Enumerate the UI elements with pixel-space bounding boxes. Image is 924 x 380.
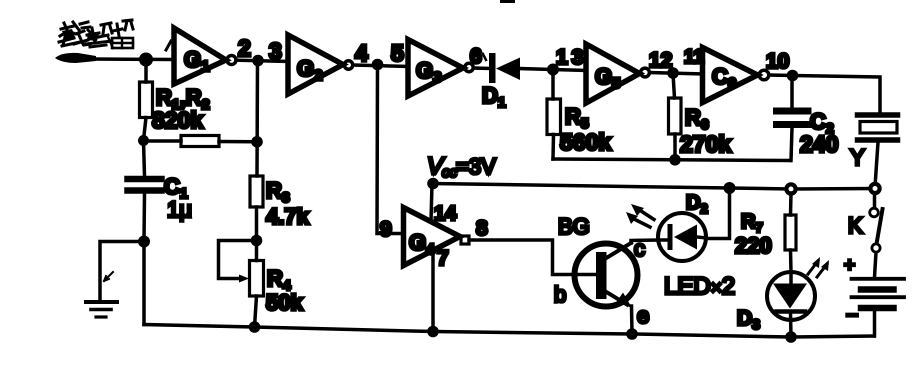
LED D2	[658, 213, 706, 261]
inverter G3	[408, 40, 463, 97]
inverter G6 (C6)	[703, 48, 758, 103]
wire node13 down to R5	[551, 70, 555, 99]
node R1 bottom	[138, 135, 149, 146]
wire Vcc down to G4 pin14	[431, 184, 432, 221]
bottom rail	[144, 325, 874, 338]
ground	[86, 300, 117, 304]
wire D1 to G5	[519, 69, 586, 71]
wire C1 node down to bottom rail	[142, 242, 146, 325]
svg-text:560k: 560k	[560, 129, 611, 155]
svg-text:b: b	[554, 282, 566, 307]
switch K	[873, 193, 877, 208]
capacitor C2	[777, 108, 809, 115]
wire node12 down to R6	[673, 74, 675, 99]
node R6 bottom on feedback wire	[669, 154, 681, 166]
wire G5 out to G6	[650, 73, 703, 75]
touch probe electrode	[55, 53, 96, 63]
pin 1 tick	[166, 41, 171, 50]
svg-text:3: 3	[269, 38, 282, 64]
node R4 bottom on rail	[249, 321, 261, 333]
svg-text:c: c	[634, 236, 645, 261]
svg-text:4: 4	[355, 40, 368, 66]
svg-text:−: −	[846, 304, 858, 327]
svg-text:12: 12	[649, 49, 672, 72]
wire node to R7	[789, 193, 793, 215]
Vcc rail	[433, 184, 875, 190]
resistor R1	[140, 82, 153, 118]
svg-text:13: 13	[556, 46, 587, 69]
transistor BG	[575, 244, 638, 307]
svg-text:7: 7	[437, 247, 449, 270]
svg-text:50k: 50k	[266, 290, 303, 315]
svg-text:2: 2	[238, 35, 251, 61]
node C1 bottom	[138, 236, 150, 248]
wire R2 to node under pin2	[219, 140, 257, 144]
wire G6 out to top right corner	[769, 75, 880, 113]
resistor R2 (horizontal)	[181, 136, 219, 147]
D3 light arrows	[808, 261, 827, 277]
svg-text:270k: 270k	[680, 131, 731, 157]
node D2 top on Vcc rail	[724, 182, 736, 194]
svg-text:1μ: 1μ	[167, 197, 192, 222]
svg-text:240: 240	[800, 131, 838, 157]
svg-text:14: 14	[434, 203, 457, 225]
capacitor C1	[128, 176, 162, 183]
inverter G4	[404, 208, 461, 266]
node 13	[547, 64, 559, 76]
node Vcc	[427, 178, 439, 190]
svg-text:10: 10	[766, 50, 789, 73]
svg-text:K: K	[848, 213, 863, 238]
resistor R5	[547, 99, 561, 135]
node 10	[787, 70, 799, 82]
svg-text:=3V: =3V	[456, 154, 496, 179]
LED D3	[767, 272, 815, 320]
node under pin 2	[251, 136, 263, 148]
resistor R6	[669, 98, 682, 134]
crystal Y	[858, 112, 898, 118]
inverter G1	[174, 28, 226, 84]
touch plate label (smudged text)	[59, 20, 133, 48]
wire node to C1	[144, 141, 145, 176]
svg-text:6: 6	[470, 45, 482, 68]
pot wiper loop wire	[219, 241, 257, 279]
node 12	[667, 67, 679, 79]
resistor R3	[250, 176, 263, 207]
node pin7 on rail	[427, 326, 439, 338]
node Y/K on Vcc rail (ring)	[870, 184, 879, 193]
node D3 bottom on rail	[785, 331, 797, 343]
svg-text:5: 5	[391, 40, 404, 66]
svg-text:220: 220	[735, 233, 772, 258]
svg-text:9: 9	[380, 218, 392, 241]
inverter G5	[586, 44, 640, 103]
resistor R7	[785, 215, 796, 250]
svg-text:LED×2: LED×2	[664, 273, 735, 300]
svg-text:e: e	[637, 303, 649, 328]
ground pen mark	[104, 272, 113, 281]
wire node10 down to C2	[790, 76, 794, 107]
wire G3 to D1	[474, 66, 490, 70]
wire G2 out to G3	[353, 65, 408, 67]
resistor R4 (rheostat)	[250, 261, 264, 297]
svg-text:BG: BG	[558, 214, 590, 239]
wire probe to G1 input	[92, 57, 174, 61]
feedback wire R5/R6/C2 bottoms	[553, 159, 790, 161]
wire to R2	[144, 139, 182, 143]
wire G4 out to transistor base	[469, 240, 600, 275]
svg-text:4.7k: 4.7k	[266, 204, 310, 229]
wire G1 out to G2	[236, 60, 288, 61]
wire G4 pin7 down to rail	[431, 251, 435, 332]
node R3/R4	[251, 235, 263, 247]
svg-text:Y: Y	[850, 145, 865, 170]
svg-text:8: 8	[476, 217, 488, 240]
node input junction	[139, 53, 153, 67]
wire to ground	[100, 242, 144, 302]
wire node2 down to R2/R3	[255, 61, 259, 176]
node R7 top on Vcc rail (ring)	[786, 184, 795, 193]
svg-text:820k: 820k	[152, 107, 203, 133]
D2 light arrows	[634, 211, 654, 227]
node 2/3	[252, 55, 264, 67]
wire input node down to R1	[144, 60, 148, 82]
inverter G2	[288, 35, 343, 94]
speck top edge	[500, 0, 515, 3]
svg-text:+: +	[844, 255, 855, 276]
node emitter on rail	[626, 328, 638, 340]
diode D1	[489, 53, 496, 83]
node 4/5	[372, 59, 384, 71]
wire node4 down to G4 input	[377, 65, 404, 234]
